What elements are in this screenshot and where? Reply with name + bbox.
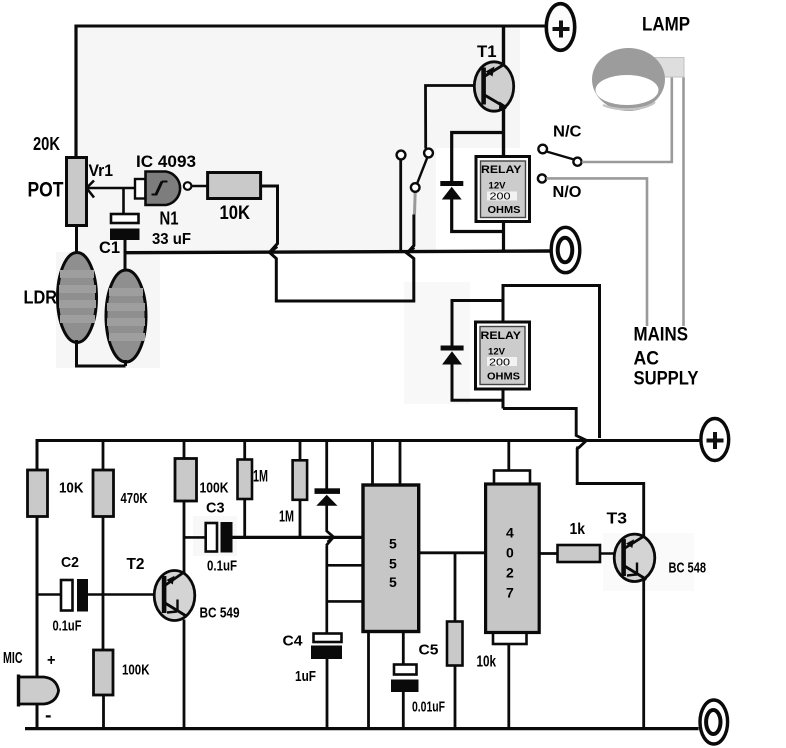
svg-text:1M: 1M [253, 467, 268, 486]
diode D2 [441, 346, 464, 365]
wire: LDR bottom corner [77, 340, 126, 366]
wire: 1k to T3 base [600, 552, 622, 555]
switch S1 lever [417, 158, 427, 184]
svg-text:BC 548: BC 548 [669, 560, 707, 577]
plus terminal bottom [701, 419, 729, 461]
diode D3 [315, 439, 341, 634]
capacitor C4 [311, 634, 342, 660]
svg-text:-: - [45, 705, 52, 725]
microphone MIC [19, 675, 59, 707]
transistor T2 [154, 571, 195, 621]
svg-text:1uF: 1uF [295, 668, 316, 685]
switch S1 gray segment [413, 192, 417, 215]
svg-text:N1: N1 [160, 209, 179, 229]
svg-text:0: 0 [506, 545, 514, 561]
svg-text:T1: T1 [477, 42, 497, 61]
resistor 1k [558, 545, 601, 562]
svg-text:C3: C3 [206, 500, 225, 517]
diode D1 [440, 181, 463, 200]
svg-text:T2: T2 [127, 556, 145, 573]
svg-text:OHMS: OHMS [488, 205, 521, 216]
wire: 10K output right and down [261, 186, 415, 301]
svg-text:MAINS: MAINS [634, 325, 689, 346]
wire: D2 anode to relay2 bottom [452, 364, 503, 409]
svg-text:4: 4 [506, 525, 514, 541]
NAND output bubble [184, 182, 192, 190]
wire: left rail down to POT [74, 25, 77, 159]
svg-text:5: 5 [389, 574, 397, 590]
svg-text:100K: 100K [200, 480, 229, 497]
wire: trigger line C3 to 555 [233, 536, 364, 539]
capacitor C3 [206, 522, 233, 553]
svg-text:SUPPLY: SUPPLY [634, 369, 699, 390]
svg-text:200: 200 [490, 192, 512, 203]
wire: relay1 diode loop top [452, 133, 504, 182]
potentiometer Vr1 [67, 158, 87, 226]
NAND gate N1 input stub [135, 179, 146, 199]
wire: left rail of bottom section [36, 439, 39, 729]
svg-text:470K: 470K [121, 490, 148, 507]
LDR [58, 253, 97, 343]
wire: D1 anode to relay1 bottom [452, 199, 504, 253]
svg-text:0.1uF: 0.1uF [53, 618, 82, 635]
svg-text:Vr1: Vr1 [89, 161, 114, 180]
gray wire lamp right to mains [682, 77, 685, 326]
wire: bottom +12V rail [37, 439, 701, 442]
wiper arrow of Vr1 [87, 181, 136, 198]
lamp dome [592, 48, 665, 111]
LDR second cell [106, 270, 146, 362]
svg-text:1M: 1M [279, 509, 294, 526]
svg-text:RELAY: RELAY [481, 330, 522, 342]
svg-text:C5: C5 [419, 642, 439, 659]
resistor 100K lower [94, 650, 114, 695]
wire: C2 to T2 base [88, 593, 163, 596]
plus terminal top [546, 4, 574, 51]
lamp fixture base [650, 58, 684, 78]
resistor 10k vertical [447, 553, 463, 729]
svg-text:20K: 20K [33, 134, 60, 154]
capacitor C2 [61, 579, 88, 612]
svg-text:POT: POT [28, 179, 64, 202]
wire: bubble to 10K [192, 185, 209, 188]
wire: POT bottom to LDR [75, 226, 78, 257]
svg-text:7: 7 [506, 585, 514, 601]
wire: T2 collector up through 100K [183, 439, 186, 729]
wire: 4027 power [507, 439, 510, 729]
resistor 1M second [293, 439, 308, 537]
gray wire N/C to lamp [582, 77, 672, 162]
NAND gate N1 body [146, 172, 181, 206]
switch S1 upper contact [424, 149, 433, 158]
svg-text:10k: 10k [477, 654, 497, 671]
wire: C3 tap [184, 536, 206, 539]
resistor 10K bottom-left [28, 470, 48, 517]
relay RL2 [476, 322, 530, 389]
svg-text:33 uF: 33 uF [152, 231, 191, 248]
relay contact N/C pivot [538, 145, 581, 166]
svg-text:MIC: MIC [3, 650, 23, 667]
svg-text:10K: 10K [220, 203, 251, 224]
wire: C5 to rail [402, 692, 405, 729]
capacitor C1 33uF [110, 214, 140, 240]
wire: 555 pin stubs [327, 565, 363, 601]
wire: T1 emitter down to relay1 [502, 108, 505, 157]
wire: T1 collector to rail [502, 25, 505, 65]
zero terminal top [551, 227, 580, 272]
wire: C1 to LDR2 and main line [124, 240, 127, 272]
svg-text:5: 5 [389, 556, 397, 572]
svg-text:T3: T3 [607, 511, 628, 528]
zero terminal bottom [700, 700, 728, 744]
wire: mic node to C2 [37, 593, 61, 596]
resistor 100K upper [175, 459, 197, 502]
resistor 10K (top) [208, 173, 261, 199]
wire: T3 emitter to rail [642, 580, 645, 729]
svg-text:0.1uF: 0.1uF [207, 558, 237, 575]
wire: ground rail bottom [25, 727, 699, 730]
svg-text:N/O: N/O [553, 184, 582, 201]
wire: left contact down to 0V line [399, 160, 402, 253]
wire: 470K branch [102, 439, 105, 729]
svg-text:100K: 100K [122, 662, 150, 679]
wire: main 0V horizontal line [125, 251, 551, 253]
label MAINS AC SUPPLY [634, 325, 699, 390]
IC 4027 [486, 471, 540, 645]
gray wire N/O down to mains [546, 178, 647, 326]
switch S1 pole contact [411, 183, 420, 192]
wire: D2 cathode loop [452, 301, 503, 346]
svg-text:1k: 1k [570, 521, 586, 538]
svg-text:0.01uF: 0.01uF [412, 699, 445, 716]
transistor T1 [474, 62, 513, 111]
resistor 1M first [238, 439, 253, 537]
wire: +12V top rail [76, 25, 546, 28]
svg-text:AC: AC [634, 349, 660, 370]
IC 555 [363, 485, 419, 632]
wire: relay2 top to +rail [503, 286, 600, 439]
svg-text:5: 5 [389, 536, 397, 552]
capacitor C5 [391, 665, 419, 693]
wire: T1 base down to switch [426, 86, 483, 149]
svg-text:N/C: N/C [553, 124, 582, 141]
wire: C4 to ground rail [326, 659, 329, 729]
svg-text:IC 4093: IC 4093 [136, 153, 196, 171]
svg-text:LDR: LDR [24, 288, 58, 308]
resistor 470K [93, 470, 114, 517]
svg-text:12V: 12V [489, 181, 507, 192]
svg-text:200: 200 [489, 358, 511, 369]
svg-text:BC 549: BC 549 [200, 605, 240, 622]
svg-text:C1: C1 [99, 238, 120, 257]
svg-text:C4: C4 [283, 633, 304, 650]
relay contact N/O [538, 174, 546, 182]
svg-text:C2: C2 [61, 554, 79, 571]
wire: 555 power pins [373, 439, 401, 485]
transistor T3 [614, 534, 655, 581]
svg-text:+: + [47, 652, 56, 669]
switch S1 left contact [397, 151, 406, 160]
background washes [56, 26, 694, 591]
relay RL1 [476, 157, 530, 222]
wire: 555 bottom pins [369, 632, 404, 730]
wire: 4027 out to 1k [539, 552, 558, 555]
wire: relay2 bottom to T3 collector with hop [503, 409, 644, 537]
svg-text:RELAY: RELAY [481, 164, 522, 176]
svg-text:LAMP: LAMP [642, 15, 690, 36]
wire: wiper node down to C1 [122, 188, 125, 214]
wire: LDR2 bottom [124, 360, 127, 366]
wire: 555 output to 4027 [419, 551, 486, 554]
svg-text:OHMS: OHMS [487, 372, 520, 383]
svg-text:10K: 10K [59, 480, 84, 497]
svg-text:2: 2 [506, 565, 514, 581]
svg-text:12V: 12V [488, 347, 506, 358]
